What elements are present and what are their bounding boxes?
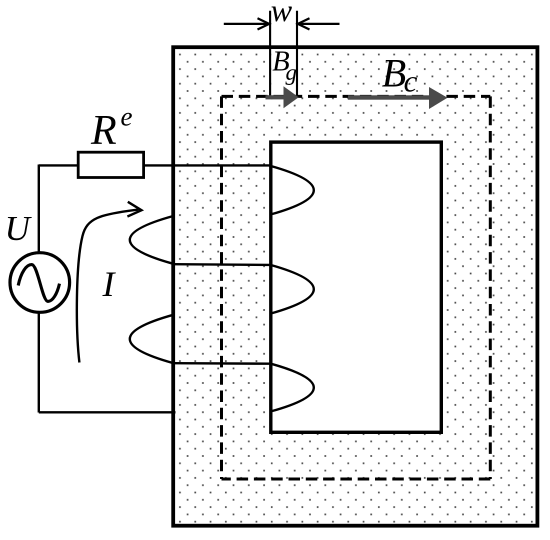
air gap (white cut in top limb) (271, 49, 296, 95)
core window (white) (271, 142, 442, 432)
flux density Bg arrow (266, 86, 299, 108)
coil crossing wire 2 (173, 362, 270, 365)
flux path (dashed rectangle) (222, 96, 491, 479)
sine symbol (18, 265, 59, 302)
svg-text:c: c (404, 64, 418, 99)
svg-text:I: I (102, 264, 117, 304)
svg-text:w: w (271, 0, 293, 28)
wire: top (source to resistor to coil) (39, 164, 271, 166)
svg-text:g: g (286, 60, 298, 85)
svg-text:B: B (382, 50, 406, 95)
source U (circle with sine) (10, 253, 70, 313)
coil turn arc right 3 (271, 364, 314, 412)
coil winding (130, 166, 314, 411)
svg-text:U: U (5, 209, 33, 248)
dimension line right of w (298, 18, 340, 29)
wire: left upper segment (38, 165, 40, 254)
current arrow I (77, 202, 142, 363)
flux density Bc arrow (348, 87, 448, 109)
svg-text:e: e (121, 102, 133, 132)
svg-text:R: R (90, 108, 117, 154)
air gap boundary line left (269, 11, 271, 97)
dimension line left of w (224, 18, 269, 29)
coil crossing wire 1 (173, 263, 270, 266)
magnetic core (stippled) (173, 47, 537, 526)
coil turn arc right 2 (271, 265, 314, 314)
wire: bottom (coil return to source) (39, 411, 176, 413)
coil turn arc right 1 (271, 166, 314, 214)
air gap boundary line right (296, 11, 298, 97)
resistor Re (78, 152, 143, 177)
coil turn arc left 1 (130, 216, 174, 264)
wire: left lower segment (38, 312, 40, 413)
coil turn arc left 2 (130, 315, 174, 363)
